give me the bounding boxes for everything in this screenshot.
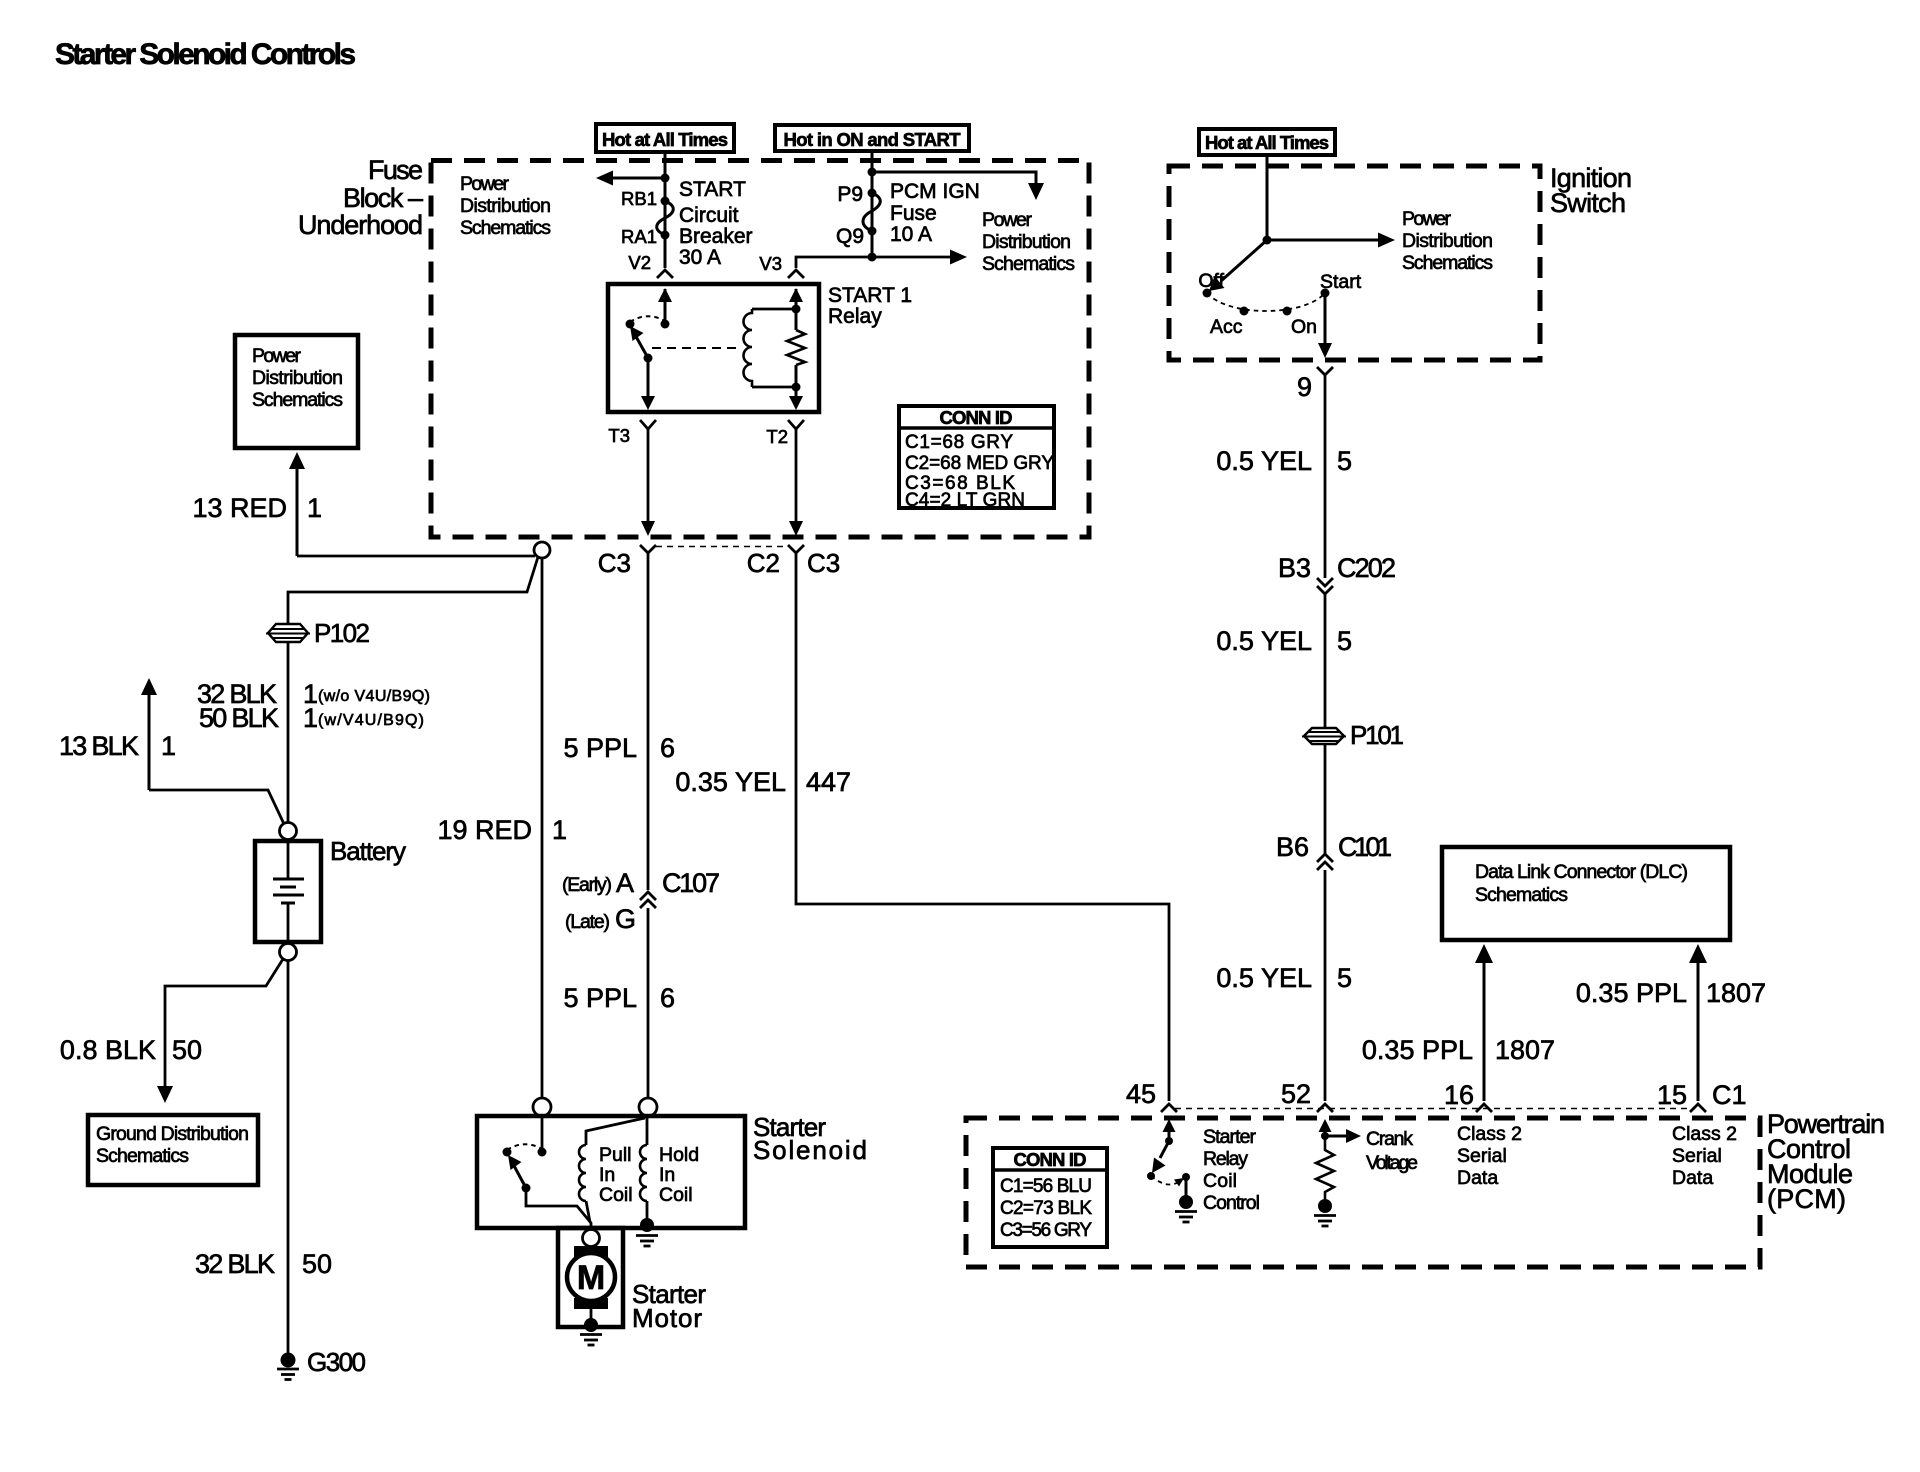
wire 13 RED with up arrow to box [289,452,305,556]
wire to power distribution (right arrow) [1267,233,1395,248]
svg-text:Starter Solenoid Controls: Starter Solenoid Controls [55,38,356,71]
svg-text:Schematics: Schematics [96,1145,189,1167]
svg-text:Coil: Coil [1203,1170,1237,1192]
label Hold In Coil [659,1144,699,1206]
svg-text:CONN ID: CONN ID [940,407,1013,428]
svg-text:1: 1 [161,731,176,761]
svg-text:Start: Start [1320,271,1362,293]
svg-text:Power: Power [982,209,1033,231]
ground G300 [277,1353,299,1380]
ground symbol (coil control) [1175,1212,1197,1223]
svg-text:1807: 1807 [1495,1035,1555,1065]
relay switch output wire with down arrow [641,358,655,410]
svg-text:PCM IGN: PCM IGN [890,180,980,203]
Hot at All Times box (left) [596,124,734,152]
solenoid switch NO node [503,1148,512,1157]
connector C101 double chevron [1317,854,1333,870]
value label 0.35 PPL 1807 (pin 16) [1362,1035,1555,1065]
svg-text:CONN ID: CONN ID [1014,1149,1087,1170]
svg-text:T2: T2 [766,426,788,447]
value label 32 BLK 50 [195,1249,332,1279]
motor ground wire [590,1309,593,1319]
hold in coil bottom connection [646,1201,649,1222]
label Pull In Coil [599,1144,633,1206]
label Starter Solenoid [753,1112,867,1165]
svg-text:Ground Distribution: Ground Distribution [96,1123,249,1145]
svg-text:30 A: 30 A [679,246,721,269]
svg-text:(w/o V4U/B9Q): (w/o V4U/B9Q) [318,688,430,705]
fuse PCM IGN 10A symbol [863,193,880,231]
svg-text:Coil: Coil [659,1184,693,1206]
wire diagonal from splice to battery branch [288,557,538,624]
svg-text:C107: C107 [662,868,720,898]
ground symbol (motor) [580,1335,602,1346]
svg-text:Distribution: Distribution [252,367,343,389]
pin 52 internal wire with up arrow [1319,1119,1332,1136]
wire P102 to battery positive [287,642,290,822]
wire hot feed into ignition switch [1266,155,1269,240]
svg-text:Motor: Motor [632,1303,702,1333]
pull in coil bottom connection [586,1201,590,1222]
solenoid switch travel dashed arc [507,1144,542,1150]
svg-text:B6: B6 [1276,832,1309,862]
wire 5 PPL upper segment [647,553,650,890]
svg-text:Hot at All Times: Hot at All Times [602,129,728,150]
node Acc [1240,307,1249,316]
svg-text:Q9: Q9 [836,225,864,248]
svg-text:Hold: Hold [659,1144,699,1166]
node RA1 [661,231,670,240]
svg-text:P102: P102 [314,618,370,648]
wire P101 to C101 [1324,744,1327,856]
svg-text:(Late): (Late) [565,911,610,933]
relay resistor R (parallel with coil) [787,330,805,365]
svg-text:M: M [577,1259,605,1297]
PCM driver switch NO node [1147,1172,1155,1180]
svg-text:RB1: RB1 [621,188,657,209]
node relay coil bottom [792,383,801,392]
PCM driver switch arm with arrowhead [1152,1141,1169,1173]
PCM pin 15 chevron [1690,1104,1706,1112]
ground symbol (solenoid) [636,1236,658,1247]
relay K START 1 box [608,284,819,412]
svg-text:5: 5 [1337,626,1352,656]
label Fuse Block - Underhood [298,155,423,240]
junction node above fuse [868,168,877,177]
svg-text:Breaker: Breaker [679,225,753,248]
relay switch common wire with up arrow [658,288,672,324]
svg-text:5 PPL: 5 PPL [563,733,637,763]
svg-text:6: 6 [660,733,675,763]
svg-text:In: In [599,1164,615,1186]
connector terminal V3 chevron [788,270,804,278]
svg-text:0.5 YEL: 0.5 YEL [1216,446,1312,476]
motor input terminal (open circle) [583,1230,600,1247]
PCM header dashed pin line [1175,1108,1692,1110]
svg-text:Battery: Battery [330,836,406,866]
svg-text:Off: Off [1198,270,1224,292]
svg-text:Relay: Relay [1203,1148,1248,1170]
value label 19 RED 1 [437,815,567,845]
relay coil branch top wire [752,308,796,311]
svg-text:C3: C3 [598,548,631,578]
svg-text:Switch: Switch [1550,188,1626,218]
PCM driver contact node [1182,1173,1190,1181]
relay actuation dashed link [652,347,737,349]
label Starter Motor [632,1279,706,1333]
wire 0.35 YEL from T2 to PCM pin 45 [796,553,1169,1101]
starter motor enclosure [558,1228,623,1327]
relay switch common node [661,320,670,329]
svg-text:1: 1 [307,493,322,523]
wire to power distribution (left arrow) [596,171,665,186]
connector terminal V2 chevron [657,270,673,278]
solenoid switch common wire [541,1116,544,1150]
svg-text:(Early): (Early) [562,874,612,896]
splice junction (open circle) on battery feed [534,542,550,558]
svg-text:9: 9 [1297,372,1312,402]
ignition rotor arm with arrowhead to Off [1209,240,1267,291]
PCM driver dashed arc [1151,1176,1180,1185]
svg-text:In: In [659,1164,675,1186]
svg-text:Class 2: Class 2 [1672,1123,1737,1145]
value label 5 PPL 6 (lower) [563,983,675,1013]
hold in coil top connection [646,1116,649,1145]
svg-text:6: 6 [660,983,675,1013]
svg-text:(PCM): (PCM) [1767,1184,1846,1214]
value label 0.35 YEL 447 [675,767,851,797]
svg-text:Distribution: Distribution [982,231,1071,253]
junction node on breaker feed [661,174,670,183]
wire fuse output to V3 and power distribution arrow [796,250,967,269]
svg-text:Solenoid: Solenoid [753,1135,867,1165]
solenoid switch arm with arrowhead [508,1155,526,1188]
grommet P101 [1302,728,1346,744]
svg-text:0.35 PPL: 0.35 PPL [1362,1035,1473,1065]
svg-text:C3: C3 [807,548,840,578]
svg-text:C101: C101 [1338,832,1392,862]
pin 52 internal node [1321,1132,1329,1140]
wire battery negative to 0.8 BLK with down arrow [157,959,283,1103]
PCM dashed enclosure [966,1118,1760,1267]
wire from Hot at All Times to breaker [664,152,667,268]
starter solenoid box [477,1116,745,1228]
label Starter Relay Coil Control [1203,1126,1260,1214]
svg-text:B3: B3 [1278,553,1311,583]
svg-text:Acc: Acc [1210,316,1243,338]
svg-text:Schematics: Schematics [460,217,551,239]
svg-text:0.5 YEL: 0.5 YEL [1216,626,1312,656]
connector C2 (Y symbol) [788,545,804,553]
wire Start output with down arrow [1318,293,1332,358]
relay switch travel dashed arc [630,316,665,322]
note Power Distribution Schematics (fuse block left) [460,173,551,239]
svg-text:T3: T3 [608,425,630,446]
battery BAT box [255,841,321,942]
wire 0.35 PPL pin 16 to DLC with up arrow [1475,944,1493,1101]
svg-text:V3: V3 [759,253,782,274]
svg-text:0.35 PPL: 0.35 PPL [1576,978,1687,1008]
connector terminal T3 (Y symbol) [640,420,656,429]
value label 0.8 BLK 50 [60,1035,202,1065]
battery positive terminal (open circle) [280,823,297,840]
label Class 2 Serial Data (pin 16) [1457,1123,1522,1189]
svg-text:C1=68 GRY: C1=68 GRY [905,432,1013,453]
fuse block - underhood dashed enclosure [431,161,1089,538]
crank voltage tap arrow [1325,1129,1361,1143]
hold in coil L (inductor) [640,1145,647,1201]
svg-text:Control: Control [1203,1192,1260,1214]
Hot in ON and START box [775,125,969,151]
value label 13 RED 1 [192,493,322,523]
svg-text:Power: Power [1402,208,1452,230]
svg-text:Distribution: Distribution [1402,230,1493,252]
wire branch to power distribution (down arrow) [872,172,1044,200]
svg-text:Fuse: Fuse [368,155,423,185]
svg-text:0.35 YEL: 0.35 YEL [675,767,786,797]
relay switch NO node [626,320,635,329]
relay coil L1 (inductor bumps) [744,309,753,387]
value label PCM IGN Fuse 10 A [890,180,980,246]
svg-text:C1=56 BLU: C1=56 BLU [1000,1176,1092,1197]
Hot at All Times box (ignition) [1199,129,1335,155]
relay switch arm with arrowhead [630,326,648,358]
node On [1283,307,1292,316]
pull in coil L (inductor) [579,1145,586,1201]
svg-text:Starter: Starter [1203,1126,1257,1148]
crank voltage ground node [1318,1199,1332,1213]
svg-text:1: 1 [303,703,318,733]
svg-text:Distribution: Distribution [460,195,551,217]
svg-text:P9: P9 [837,183,863,206]
svg-text:Serial: Serial [1672,1145,1722,1167]
motor ground node [584,1318,598,1332]
pull in coil top connection [586,1118,645,1145]
svg-text:19 RED: 19 RED [437,815,532,845]
wire 13 BLK with up arrow [141,678,284,824]
label Crank Voltage [1366,1128,1418,1174]
value label 0.5 YEL 5 (top) [1216,446,1352,476]
relay coil output wire with down arrow [789,365,803,410]
svg-text:Data: Data [1457,1167,1498,1189]
relay V3 entry wire with up arrow [789,288,803,330]
svg-text:Hot at All Times: Hot at All Times [1205,132,1329,153]
node Off [1203,289,1212,298]
solenoid coil ground node [640,1218,654,1232]
svg-text:C2=68 MED GRY: C2=68 MED GRY [905,453,1054,474]
ground symbol (crank voltage) [1314,1216,1336,1227]
wire T3 to fuse block edge with down arrow [641,429,655,536]
svg-text:447: 447 [806,767,851,797]
label (Early) A [562,868,634,898]
svg-text:Data: Data [1672,1167,1713,1189]
svg-text:0.5 YEL: 0.5 YEL [1216,963,1312,993]
junction node below fuse [868,253,877,262]
value label START Circuit Breaker 30 A [679,178,753,269]
svg-text:Serial: Serial [1457,1145,1507,1167]
connector C3 (Y symbol) below fuse block [640,545,656,553]
svg-text:C2=73 BLK: C2=73 BLK [1000,1198,1092,1219]
connector C202 double chevron [1317,578,1333,594]
solenoid switch output node [522,1184,531,1193]
svg-text:C4=2 LT GRN: C4=2 LT GRN [905,490,1025,511]
svg-text:P101: P101 [1350,720,1404,750]
PCM driver contact wire [1185,1177,1188,1196]
svg-text:(w/V4U/B9Q): (w/V4U/B9Q) [318,712,424,729]
ignition detent dashed arc Off-Acc-On-Start [1207,293,1325,311]
svg-text:Class 2: Class 2 [1457,1123,1522,1145]
svg-text:Data Link Connector (DLC): Data Link Connector (DLC) [1475,861,1688,883]
svg-text:A: A [616,868,634,898]
svg-text:0.8 BLK: 0.8 BLK [60,1035,156,1065]
connector C107 double chevron [640,892,656,908]
svg-text:50 BLK: 50 BLK [199,703,279,733]
PCM pin 16 chevron [1476,1104,1492,1112]
label Class 2 Serial Data (pin 15) [1672,1123,1737,1189]
connector terminal T2 (Y symbol) [788,420,804,429]
relay coil branch bottom wire [752,386,796,389]
svg-text:52: 52 [1281,1079,1311,1109]
svg-text:5: 5 [1337,446,1352,476]
label (Late) G [565,904,636,934]
node Start [1321,289,1330,298]
wire from Hot in ON and START to fuse [871,151,874,257]
pin 45 internal node [1165,1137,1173,1145]
label START 1 Relay [828,284,912,328]
solenoid terminal (open circle right) [639,1098,657,1116]
wire battery negative to G300 [287,961,290,1353]
ignition feed junction node [1263,236,1272,245]
battery cell plates [273,840,304,943]
wire 0.5 YEL C202 to P101 [1324,594,1327,728]
svg-text:5 PPL: 5 PPL [563,983,637,1013]
svg-text:Schematics: Schematics [1402,252,1493,274]
note Power Distribution Schematics (ignition) [1402,208,1493,274]
svg-text:RA1: RA1 [621,226,657,247]
battery negative terminal (open circle) [280,944,297,961]
CONN ID table (PCM) [993,1148,1107,1247]
svg-text:Power: Power [460,173,510,195]
note Power Distribution Schematics (fuse block right) [982,209,1075,275]
svg-text:Circuit: Circuit [679,204,739,227]
svg-text:Fuse: Fuse [890,202,937,225]
wire 19 RED splice to solenoid [541,558,544,1098]
CONN ID table (fuse block) [899,406,1054,511]
svg-text:V2: V2 [628,252,651,273]
svg-text:Coil: Coil [599,1184,633,1206]
grommet P102 [266,624,310,642]
svg-text:START: START [679,178,746,201]
wire 0.35 PPL pin 15 to DLC with up arrow [1689,944,1707,1101]
value label 0.5 YEL 5 (middle) [1216,626,1352,656]
wire 5 PPL lower segment [647,908,650,1098]
wire 0.5 YEL C101 to PCM pin 52 [1324,870,1327,1101]
value label 5 PPL 6 (upper) [563,733,675,763]
node P9 [868,189,877,198]
reference box Ground Distribution Schematics [88,1115,258,1185]
PCM pin 52 chevron [1317,1104,1333,1112]
reference box Data Link Connector (DLC) Schematics [1442,847,1730,940]
svg-text:On: On [1291,316,1317,338]
svg-text:Voltage: Voltage [1366,1152,1418,1174]
label Powertrain Control Module (PCM) [1767,1109,1885,1214]
node Q9 [868,227,877,236]
PCM pin 45 chevron [1161,1104,1177,1112]
solenoid switch output wire to motor [526,1188,591,1230]
wire 0.5 YEL ignition to C202 [1324,375,1327,578]
dashed link between C3 and C2 [656,546,788,548]
value label 0.5 YEL 5 (bottom) [1216,963,1352,993]
relay switch output node [644,354,653,363]
svg-text:Relay: Relay [828,305,882,328]
svg-text:13 BLK: 13 BLK [59,731,139,761]
wire horizontal from junction circle to 13 RED [297,555,535,558]
svg-text:Schematics: Schematics [982,253,1075,275]
svg-text:Power: Power [252,345,302,367]
svg-text:G: G [615,904,636,934]
svg-text:Underhood: Underhood [298,210,423,240]
svg-text:C3=56 GRY: C3=56 GRY [1000,1220,1092,1241]
value label 13 BLK 1 [59,731,176,761]
svg-text:Hot in ON and START: Hot in ON and START [784,129,962,150]
svg-text:C202: C202 [1337,553,1396,583]
svg-text:Schematics: Schematics [252,389,343,411]
node RB1 [661,197,670,206]
svg-text:Schematics: Schematics [1475,884,1568,906]
svg-text:50: 50 [302,1249,332,1279]
circuit breaker CB (START 30 A) symbol [657,201,674,235]
svg-text:START 1: START 1 [828,284,912,307]
svg-text:5: 5 [1337,963,1352,993]
label Ignition Switch [1550,163,1632,218]
svg-text:45: 45 [1126,1079,1156,1109]
svg-text:Pull: Pull [599,1144,632,1166]
svg-text:Crank: Crank [1366,1128,1413,1150]
svg-text:1807: 1807 [1706,978,1766,1008]
motor M symbol [567,1246,615,1309]
svg-text:C1: C1 [1712,1080,1747,1110]
pin 45 internal wire with up arrow [1163,1119,1176,1141]
crank voltage resistor R [1316,1136,1334,1199]
svg-text:50: 50 [172,1035,202,1065]
connector terminal 9 (Y symbol) [1317,367,1333,375]
reference box Power Distribution Schematics (upper left) [235,335,358,448]
solenoid terminal S (open circle left) [533,1098,551,1116]
wire T2 to fuse block edge with down arrow [789,429,803,536]
value label 0.35 PPL 1807 (pin 15) [1576,978,1766,1008]
svg-text:1: 1 [552,815,567,845]
value label 50 BLK 1 (w/V4U/B9Q) [199,703,424,733]
svg-text:16: 16 [1444,1080,1474,1110]
svg-text:G300: G300 [307,1347,366,1377]
svg-text:32 BLK: 32 BLK [195,1249,275,1279]
svg-text:C2: C2 [747,548,780,578]
svg-text:Block –: Block – [343,183,423,213]
solenoid switch common node [538,1148,547,1157]
svg-text:10 A: 10 A [890,223,932,246]
ignition switch dashed enclosure [1169,166,1540,360]
svg-text:15: 15 [1657,1080,1687,1110]
value label 32 BLK 1 (w/o V4U/B9Q) [197,679,430,709]
PCM driver ground node [1179,1195,1193,1209]
svg-text:13 RED: 13 RED [192,493,287,523]
node relay coil top [792,305,801,314]
